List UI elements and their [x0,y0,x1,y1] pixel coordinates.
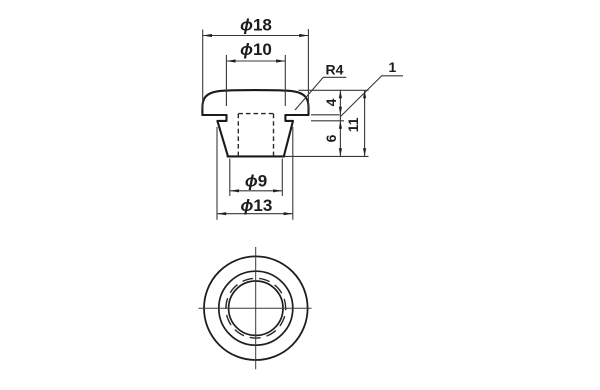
dim chain 4/1/6 vertical line [339,90,341,156]
dim 11 vertical line [364,90,366,156]
dim phi13 extension lines [216,127,218,220]
dim phi10 extension lines [225,55,227,106]
svg-text:ϕ10: ϕ10 [240,40,272,59]
neck and body left [217,115,228,156]
dim 11 arrows [363,90,366,98]
svg-text:1: 1 [389,59,397,75]
dimension texts [240,16,272,216]
dim phi10 line [226,60,285,62]
right side: part bottom extension line [285,155,369,157]
phi18 arrows [203,34,212,37]
dim phi13 line [217,213,293,215]
svg-text:4: 4 [323,98,339,106]
leader 1 [341,76,404,117]
dim phi18 line [203,35,309,37]
svg-text:ϕ9: ϕ9 [245,171,267,190]
phi10 arrows [226,59,235,62]
svg-text:6: 6 [323,134,339,142]
svg-text:R4: R4 [326,62,344,78]
phi9 arrows [230,189,239,192]
dim phi18 extension lines [202,30,204,110]
top view: horizontal centerline [199,307,312,309]
svg-text:ϕ18: ϕ18 [240,16,272,35]
grommet section view: cap outline [202,90,308,156]
top view: outer circle phi18 [204,256,308,360]
dim 4 arrows [339,90,342,98]
hidden bore (dashed) [238,114,273,157]
arrowheads [203,34,367,215]
body bottom line [228,155,285,157]
dim 1/6 arrows [339,121,342,129]
leader R4 [295,77,346,110]
top view: inner circle phi9 [229,281,283,335]
top view: vertical centerline [255,247,257,369]
dim phi9 line [230,190,282,192]
right side: groove bottom short extension line [311,120,344,122]
right side: cap bottom short extension line [311,114,340,116]
dimension lines (thin) [203,29,403,220]
top view: hidden circle phi10 (dashed) [226,278,286,338]
svg-text:ϕ13: ϕ13 [241,196,273,215]
phi13 arrows [217,212,226,215]
svg-text:11: 11 [345,117,361,132]
right side: cap top extension line [299,89,369,91]
neck and body right [284,115,293,156]
cap bottom line left segment [202,114,226,116]
cap bottom line right segment [285,114,308,116]
dim phi9 extension lines [229,159,231,197]
top view: circle phi13 [219,271,293,345]
